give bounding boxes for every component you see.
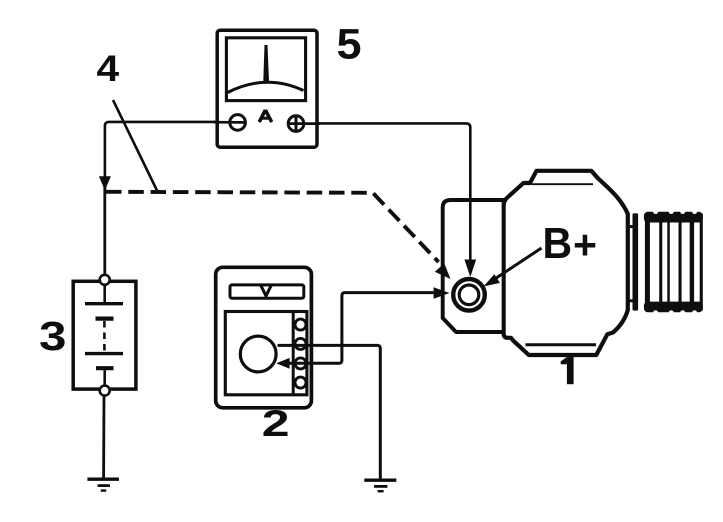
svg-text:3: 3 (39, 313, 66, 359)
svg-text:+: + (573, 222, 597, 268)
svg-text:4: 4 (97, 49, 120, 90)
svg-text:2: 2 (262, 403, 290, 444)
svg-text:5: 5 (337, 21, 362, 69)
svg-text:B: B (543, 220, 573, 269)
